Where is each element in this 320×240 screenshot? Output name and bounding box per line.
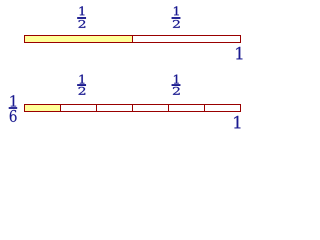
yellow shaded first sixth (1/6) <box>25 105 60 111</box>
fraction 1/2 (top bar, right half): denominator 2 <box>173 20 180 28</box>
bottom fraction bar (sixths model) <box>24 104 241 112</box>
top fraction bar (halves model) <box>24 35 241 43</box>
divider tick at 2/6 <box>96 105 97 111</box>
divider tick at 1/6 <box>60 105 61 111</box>
fraction 1/2 (bottom bar, left): denominator 2 <box>79 87 86 95</box>
fraction 1/6: fraction line <box>9 107 18 109</box>
fraction 1/2 (top bar, left half): denominator 2 <box>79 20 86 28</box>
yellow shaded left half (1/2) <box>25 36 132 42</box>
fraction label 1/2 (bottom bar, left): numerator 1 <box>80 75 85 84</box>
fraction 1/2 (top bar, left half): fraction line <box>77 17 86 19</box>
fraction 1/2 (top bar, right half): fraction line <box>172 17 181 19</box>
fraction label 1/6 (left of bottom bar): numerator 1 <box>10 95 16 106</box>
fraction 1/2 (bottom bar, right): denominator 2 <box>173 87 180 95</box>
divider tick at 1/2 <box>132 36 133 42</box>
label 1 at right end of top bar <box>236 47 242 60</box>
fraction label 1/2 (top bar, left half): numerator 1 <box>80 6 85 15</box>
fraction 1/2 (bottom bar, right): fraction line <box>172 84 181 86</box>
fraction 1/2 (bottom bar, left): fraction line <box>77 84 86 86</box>
divider tick at 4/6 <box>168 105 169 111</box>
fraction label 1/2 (top bar, right half): numerator 1 <box>174 6 179 15</box>
divider tick at 3/6 <box>132 105 133 111</box>
label 1 at right end of bottom bar <box>234 116 240 128</box>
fraction label 1/2 (bottom bar, right): numerator 1 <box>174 75 179 84</box>
fraction 1/6: denominator 6 <box>10 110 17 122</box>
divider tick at 5/6 <box>204 105 205 111</box>
